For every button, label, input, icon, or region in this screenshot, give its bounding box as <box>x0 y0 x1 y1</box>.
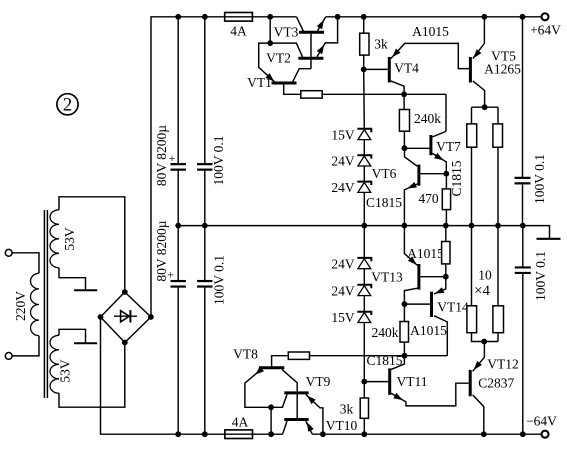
svg-text:15V: 15V <box>331 310 355 325</box>
junction: VT12 emitter / 10 ohm pair <box>481 339 487 345</box>
svg-text:C1815: C1815 <box>366 195 402 210</box>
svg-text:C1815: C1815 <box>366 353 402 368</box>
transistor VT11 base bar <box>388 368 391 395</box>
zener diode 15V (top) <box>357 129 371 140</box>
junction: VT8 emitter / VT9 collector node <box>268 404 274 410</box>
junction: mid rail x=364.3 <box>361 223 367 229</box>
wire: top rail right segment (+64V rail) <box>326 16 541 18</box>
wire: 470 to mid rail <box>445 210 447 226</box>
svg-text:3k: 3k <box>374 37 388 52</box>
transistor VT7 emitter arrow (NPN) <box>434 153 444 160</box>
svg-text:24V: 24V <box>331 256 355 271</box>
wire: 240k to VT7 base node <box>403 131 405 148</box>
capacitor 8200u 80V (upper) plates <box>171 163 186 165</box>
transistor VT13 collector lead <box>404 288 417 304</box>
wire: secondary top winding lower end to center-tap ground <box>59 268 86 290</box>
svg-text:100V 0.1: 100V 0.1 <box>211 135 226 185</box>
wire: VT7 base lead <box>404 147 429 149</box>
svg-text:+: + <box>169 151 176 165</box>
junction: mid rail x=404.4 <box>402 223 408 229</box>
wire: left 10 ohm to VT12 emitter node <box>472 333 499 342</box>
svg-text:+64V: +64V <box>530 23 561 38</box>
zener diode 24V (bottom middle) <box>357 285 371 296</box>
transistor VT6 collector lead <box>405 148 418 166</box>
transistor VT7 collector lead <box>432 131 446 137</box>
wire: zener link <box>363 166 365 182</box>
capacitor 0.1 100V (upper right) plates <box>515 177 531 179</box>
transistor VT6 emitter arrow (NPN) <box>407 182 417 189</box>
transistor VT1 base bar <box>272 82 297 85</box>
wire: 470 to emitter node <box>445 174 447 189</box>
transistor VT5 emitter arrow (PNP) <box>473 49 481 58</box>
junction: bridge AC1 (top vertex) <box>122 289 128 295</box>
wire: VT13 base lead <box>420 276 446 278</box>
svg-text:VT14: VT14 <box>437 300 469 315</box>
capacitor 0.1 100V (upper right) wire <box>522 17 524 178</box>
svg-text:24V: 24V <box>331 283 355 298</box>
transistor VT11 emitter lead to VT12 base <box>391 383 469 406</box>
wire: right 10 ohm from mid rail <box>497 226 499 306</box>
capacitor 8200u 80V (lower) plates <box>171 280 186 282</box>
svg-text:VT13: VT13 <box>371 270 403 285</box>
wire: feedback resistor to VT11 collector node <box>310 355 448 357</box>
junction: bottom rail x=483.8 <box>481 431 487 437</box>
wire: 3k to VT4 base node <box>363 55 365 69</box>
svg-text:220V: 220V <box>13 291 28 321</box>
wire: zener link <box>363 140 365 156</box>
junction: VT13 collector / VT14 base / 240k <box>402 301 408 307</box>
capacitor 8200u 80V (lower) wire <box>177 226 179 282</box>
transistor VT1 base lead to feedback resistor <box>284 83 301 94</box>
wire: mid rail to bottom zener stack <box>363 226 365 258</box>
capacitor 0.1 100V (lower left) plates <box>197 280 212 282</box>
junction: bottom rail x=322.9 <box>320 431 326 437</box>
terminal: mains input top <box>5 249 12 256</box>
junction: 3k / VT4 base <box>361 67 367 73</box>
svg-text:24V: 24V <box>331 180 355 195</box>
wire: cap to mid rail <box>177 170 179 226</box>
zener diode 24V (top lower) <box>357 182 371 193</box>
junction: bottom rail x=522.8 <box>520 431 526 437</box>
junction: VT7 emitter / VT6 base / 470 <box>443 171 449 177</box>
svg-text:10: 10 <box>478 268 492 283</box>
transistor VT1 emitter lead <box>259 43 275 82</box>
wire: VT11 base lead <box>364 381 388 383</box>
transistor VT8 emitter arrow (NPN) <box>255 367 264 375</box>
wire: secondary bottom end to bridge AC2 <box>59 343 125 408</box>
transistor VT10 emitter lead <box>306 421 313 434</box>
wire: top rail left segment (bridge + to fuse to VT3 collector) <box>151 17 297 317</box>
svg-text:3k: 3k <box>340 402 354 417</box>
resistor 3k (top) <box>360 33 369 55</box>
wire: VT1 collector to VT2/VT3 bases <box>310 34 312 69</box>
junction: bridge DC- (left vertex) <box>98 314 104 320</box>
wire: rail to 3k <box>363 17 365 33</box>
resistor 10 (bottom right) <box>493 306 504 333</box>
capacitor 0.1 100V (upper left) plates <box>197 163 212 165</box>
resistor 240k (top) <box>399 110 409 132</box>
resistor 10 (top left) <box>467 124 477 147</box>
transistor VT2 base bar <box>298 57 323 60</box>
junction: top rail / 3k resistor <box>361 14 367 20</box>
ground: center tap (top) <box>74 289 97 291</box>
wire: left 10 ohm to mid rail <box>471 147 473 225</box>
wire: cap to bottom rail <box>177 287 179 435</box>
svg-text:A1015: A1015 <box>412 24 449 39</box>
wire: bias resistor from mid rail <box>445 226 447 242</box>
transistor VT9 base bar <box>284 391 308 394</box>
wire: cap to bottom rail <box>204 287 206 435</box>
junction: top rail / VT5 emitter <box>482 14 488 20</box>
svg-text:×4: ×4 <box>474 283 490 299</box>
svg-text:240k: 240k <box>414 111 441 126</box>
transistor VT11 collector lead <box>391 356 404 370</box>
svg-text:VT12: VT12 <box>487 356 519 371</box>
junction: mid rail x=445.8 <box>443 223 449 229</box>
resistor 10 (top right) <box>493 124 503 147</box>
junction: bridge AC2 (bottom vertex) <box>122 340 128 346</box>
ground: output common bar <box>537 238 561 240</box>
wire: cap to mid rail <box>522 183 524 225</box>
transistor VT11 emitter arrow (NPN) <box>393 393 403 400</box>
wire: secondary top end to bridge AC1 <box>59 197 125 292</box>
wire: primary bottom to mains bottom <box>12 336 39 356</box>
svg-text:VT6: VT6 <box>372 166 397 181</box>
junction: top rail / VT2 collector node <box>267 14 273 20</box>
wire: VT13 emitter from mid rail <box>404 226 417 266</box>
transistor VT9 collector lead <box>271 395 287 408</box>
transistor VT8 emitter lead <box>245 369 271 407</box>
transistor VT7 emitter lead <box>432 153 446 173</box>
transistor VT3 collector lead <box>297 17 304 31</box>
capacitor 0.1 100V (lower right) plates <box>515 266 531 268</box>
transistor VT1 emitter arrow (PNP) <box>265 73 274 82</box>
wire: right 10 ohm upper lead <box>497 107 499 124</box>
inductor: secondary winding 53V (bottom) <box>50 335 59 393</box>
wire: VT4 base lead <box>364 68 388 70</box>
svg-text:53V: 53V <box>62 227 77 251</box>
transistor VT6 emitter lead <box>404 184 417 226</box>
transistor VT10 collector lead <box>283 421 287 434</box>
transistor VT6 base bar <box>417 165 420 186</box>
junction: VT5 collector / 10 ohm pair <box>482 104 488 110</box>
transistor VT5 base bar <box>469 57 472 83</box>
junction: bottom rail x=178.2 <box>175 431 181 437</box>
junction: VT13 base / VT14 emitter <box>443 274 449 280</box>
junction: VT4 collector node <box>401 91 407 97</box>
label: circled 2 figure number <box>57 94 78 115</box>
transistor VT12 emitter lead <box>473 342 485 372</box>
resistor: VT1 base feedback (top) <box>301 91 322 98</box>
capacitor 0.1 100V (upper left) wire <box>204 17 206 165</box>
transistor VT2 emitter arrow (NPN) <box>317 45 324 55</box>
transistor VT12 emitter arrow <box>474 361 482 370</box>
transistor VT7 base bar <box>429 135 432 155</box>
resistor: VT14 emitter bias <box>442 242 450 264</box>
wire: node to bottom rail <box>270 407 272 434</box>
fuse 4A (bottom) <box>225 430 253 439</box>
svg-text:15V: 15V <box>331 127 355 142</box>
resistor 240k (bottom) <box>400 322 409 343</box>
transistor VT8 collector lead to VT9/VT10 bases <box>282 369 297 418</box>
svg-text:4A: 4A <box>230 24 247 39</box>
svg-text:A1015: A1015 <box>407 246 444 261</box>
junction: mid rail x=204.8 <box>202 223 208 229</box>
transistor VT10 emitter arrow (PNP) <box>307 422 314 432</box>
svg-text:VT3: VT3 <box>274 24 299 39</box>
junction: top rail / VT2 emitter <box>335 14 341 20</box>
resistor: VT8 base feedback (bottom) <box>288 352 309 359</box>
transistor VT8 base bar <box>259 366 284 369</box>
svg-text:80V 8200µ: 80V 8200µ <box>154 125 169 186</box>
wire: 240k to VT11 collector node <box>403 342 405 356</box>
transistor VT14 collector lead <box>434 316 447 356</box>
junction: mid rail x=498.0 <box>495 223 501 229</box>
svg-text:VT8: VT8 <box>233 347 258 362</box>
resistor 10 (bottom left) <box>467 306 477 333</box>
wire: zener link <box>363 296 365 312</box>
wire: mains top to primary <box>12 253 39 273</box>
wire: zener stack to VT11 base node <box>363 323 365 382</box>
junction: top rail / cap 0.1 <box>202 14 208 20</box>
svg-text:VT4: VT4 <box>394 61 419 76</box>
transistor VT12 collector lead <box>473 395 484 434</box>
wire: VT6 base lead from VT7 emitter node <box>420 173 446 175</box>
transistor VT10 base bar <box>284 418 308 421</box>
wire: cap to bottom rail <box>522 273 524 434</box>
zener diode 24V (top middle) <box>357 155 371 166</box>
wire: mid rail (0V output line) <box>178 226 549 239</box>
wire: bottom rail right segment (-64V rail) <box>312 433 541 435</box>
wire: right 10 ohm lower lead <box>497 333 499 342</box>
ground: center tap (bottom) <box>74 342 97 344</box>
inductor: secondary winding 53V (top) <box>50 210 59 268</box>
wire: bias resistor to VT13 base node <box>445 264 447 277</box>
svg-text:240k: 240k <box>372 325 399 340</box>
resistor 3k (bottom) <box>360 398 368 418</box>
wire: secondary bottom winding upper end to center-tap ground <box>59 329 86 343</box>
transistor VT4 collector lead <box>391 81 404 110</box>
svg-text:VT9: VT9 <box>306 374 331 389</box>
transistor VT5 emitter lead <box>473 17 485 59</box>
wire: VT8 base lead to feedback resistor <box>272 356 289 368</box>
wire: right 10 ohm to mid rail <box>497 147 499 225</box>
svg-text:A1015: A1015 <box>410 323 447 338</box>
wire: VT4 base node down to zener stack <box>363 69 366 128</box>
svg-text:80V 8200µ: 80V 8200µ <box>154 220 169 281</box>
wire: 3k to bottom rail <box>363 418 365 434</box>
transistor VT12 base bar <box>469 370 472 396</box>
inductor: primary winding 220V <box>30 273 39 335</box>
transistor VT3 emitter arrow (NPN) <box>317 20 324 30</box>
svg-text:24V: 24V <box>331 154 355 169</box>
svg-text:VT10: VT10 <box>326 418 358 433</box>
transistor VT13 base bar <box>417 264 420 290</box>
svg-text:VT11: VT11 <box>397 374 428 389</box>
junction: top rail / 0.1 cap right <box>520 14 526 20</box>
wire: cap to mid rail <box>204 170 206 226</box>
junction: VT1 emitter / VT2 collector node <box>267 40 273 46</box>
svg-text:470: 470 <box>418 191 439 206</box>
wire: bottom rail left segment (bridge - to fuse to VT10 collector) <box>101 317 283 434</box>
wire: VT7 collector to VT4 collector node <box>445 94 447 131</box>
wire: VT2 collector node vertical <box>269 17 271 43</box>
svg-text:2: 2 <box>63 95 73 116</box>
transistor VT1 collector lead <box>293 69 311 82</box>
wire: VT14 emitter lead <box>434 277 446 294</box>
junction: VT7 base node <box>402 145 408 151</box>
resistor 470 <box>442 189 450 210</box>
junction: bridge DC+ (right vertex) <box>148 314 154 320</box>
svg-text:100V 0.1: 100V 0.1 <box>532 154 547 204</box>
svg-text:VT7: VT7 <box>436 139 461 154</box>
wire: zener link <box>363 269 365 285</box>
transistor VT4 base bar <box>388 57 391 83</box>
transistor VT14 base bar <box>430 292 433 317</box>
wire: left 10 ohm upper lead <box>471 107 473 124</box>
junction: mid rail x=178.2 <box>175 223 181 229</box>
transformer core <box>43 210 45 398</box>
resistor 240k (bottom) upper lead <box>403 304 405 321</box>
transistor VT9 emitter lead <box>306 395 323 435</box>
transistor VT13 emitter arrow (PNP) <box>408 256 417 265</box>
transistor VT3 base bar <box>299 31 324 34</box>
terminal: mains input bottom <box>5 353 12 360</box>
svg-text:VT1: VT1 <box>247 75 272 90</box>
svg-text:100V 0.1: 100V 0.1 <box>533 251 548 301</box>
transistor VT3 emitter lead <box>318 17 326 31</box>
wire: VT14 base lead <box>404 303 430 305</box>
capacitor 8200u 80V (upper) wire <box>177 17 179 165</box>
svg-text:C2837: C2837 <box>478 376 514 391</box>
transistor VT14 emitter arrow (PNP) <box>435 287 445 293</box>
junction: bottom rail x=364.3 <box>361 431 367 437</box>
capacitor 0.1 100V (lower right) wire <box>522 226 524 268</box>
transistor VT4 emitter arrow (PNP) <box>392 49 401 58</box>
transistor VT5 collector lead <box>473 81 485 107</box>
svg-text:VT2: VT2 <box>266 51 291 66</box>
diode symbol inside bridge <box>114 310 137 322</box>
wire: left 10 ohm from mid rail <box>471 226 473 306</box>
junction: VT11 base / 3k node <box>361 379 367 385</box>
zener diode 24V (bottom upper) <box>357 258 371 269</box>
transistor VT2 collector lead <box>270 43 302 57</box>
junction: bottom rail x=271.1 <box>268 431 274 437</box>
svg-text:A1265: A1265 <box>484 61 521 76</box>
junction: top rail / filter cap 8200u <box>175 14 181 20</box>
junction: VT11 collector node <box>402 353 408 359</box>
zener diode 15V (bottom) <box>357 312 371 323</box>
svg-text:53V: 53V <box>58 359 73 383</box>
svg-text:4A: 4A <box>232 415 249 430</box>
junction: bottom rail x=204.8 <box>202 431 208 437</box>
fuse 4A (top) <box>225 13 253 22</box>
transistor VT9 emitter arrow (PNP) <box>307 396 316 405</box>
svg-text:−64V: −64V <box>526 413 557 428</box>
wire: zener stack to mid rail <box>363 192 365 225</box>
junction: mid rail x=471.5 <box>469 223 475 229</box>
transistor VT4 emitter lead and bootstrap wire to VT5 base <box>391 43 469 68</box>
junction: mid rail x=522.8 <box>520 223 526 229</box>
capacitor 0.1 100V (lower left) wire <box>204 226 206 282</box>
terminal +64V <box>542 13 549 20</box>
transistor VT2 emitter lead <box>317 17 338 57</box>
wire: VT5 collector node to 10 ohm resistors <box>472 106 499 108</box>
wire: feedback resistor to VT4 collector node <box>322 93 446 95</box>
wire: 3k lead <box>363 382 365 398</box>
svg-text:100V 0.1: 100V 0.1 <box>211 255 226 305</box>
terminal -64V <box>542 431 549 438</box>
bridge rectifier diamond <box>101 292 151 343</box>
